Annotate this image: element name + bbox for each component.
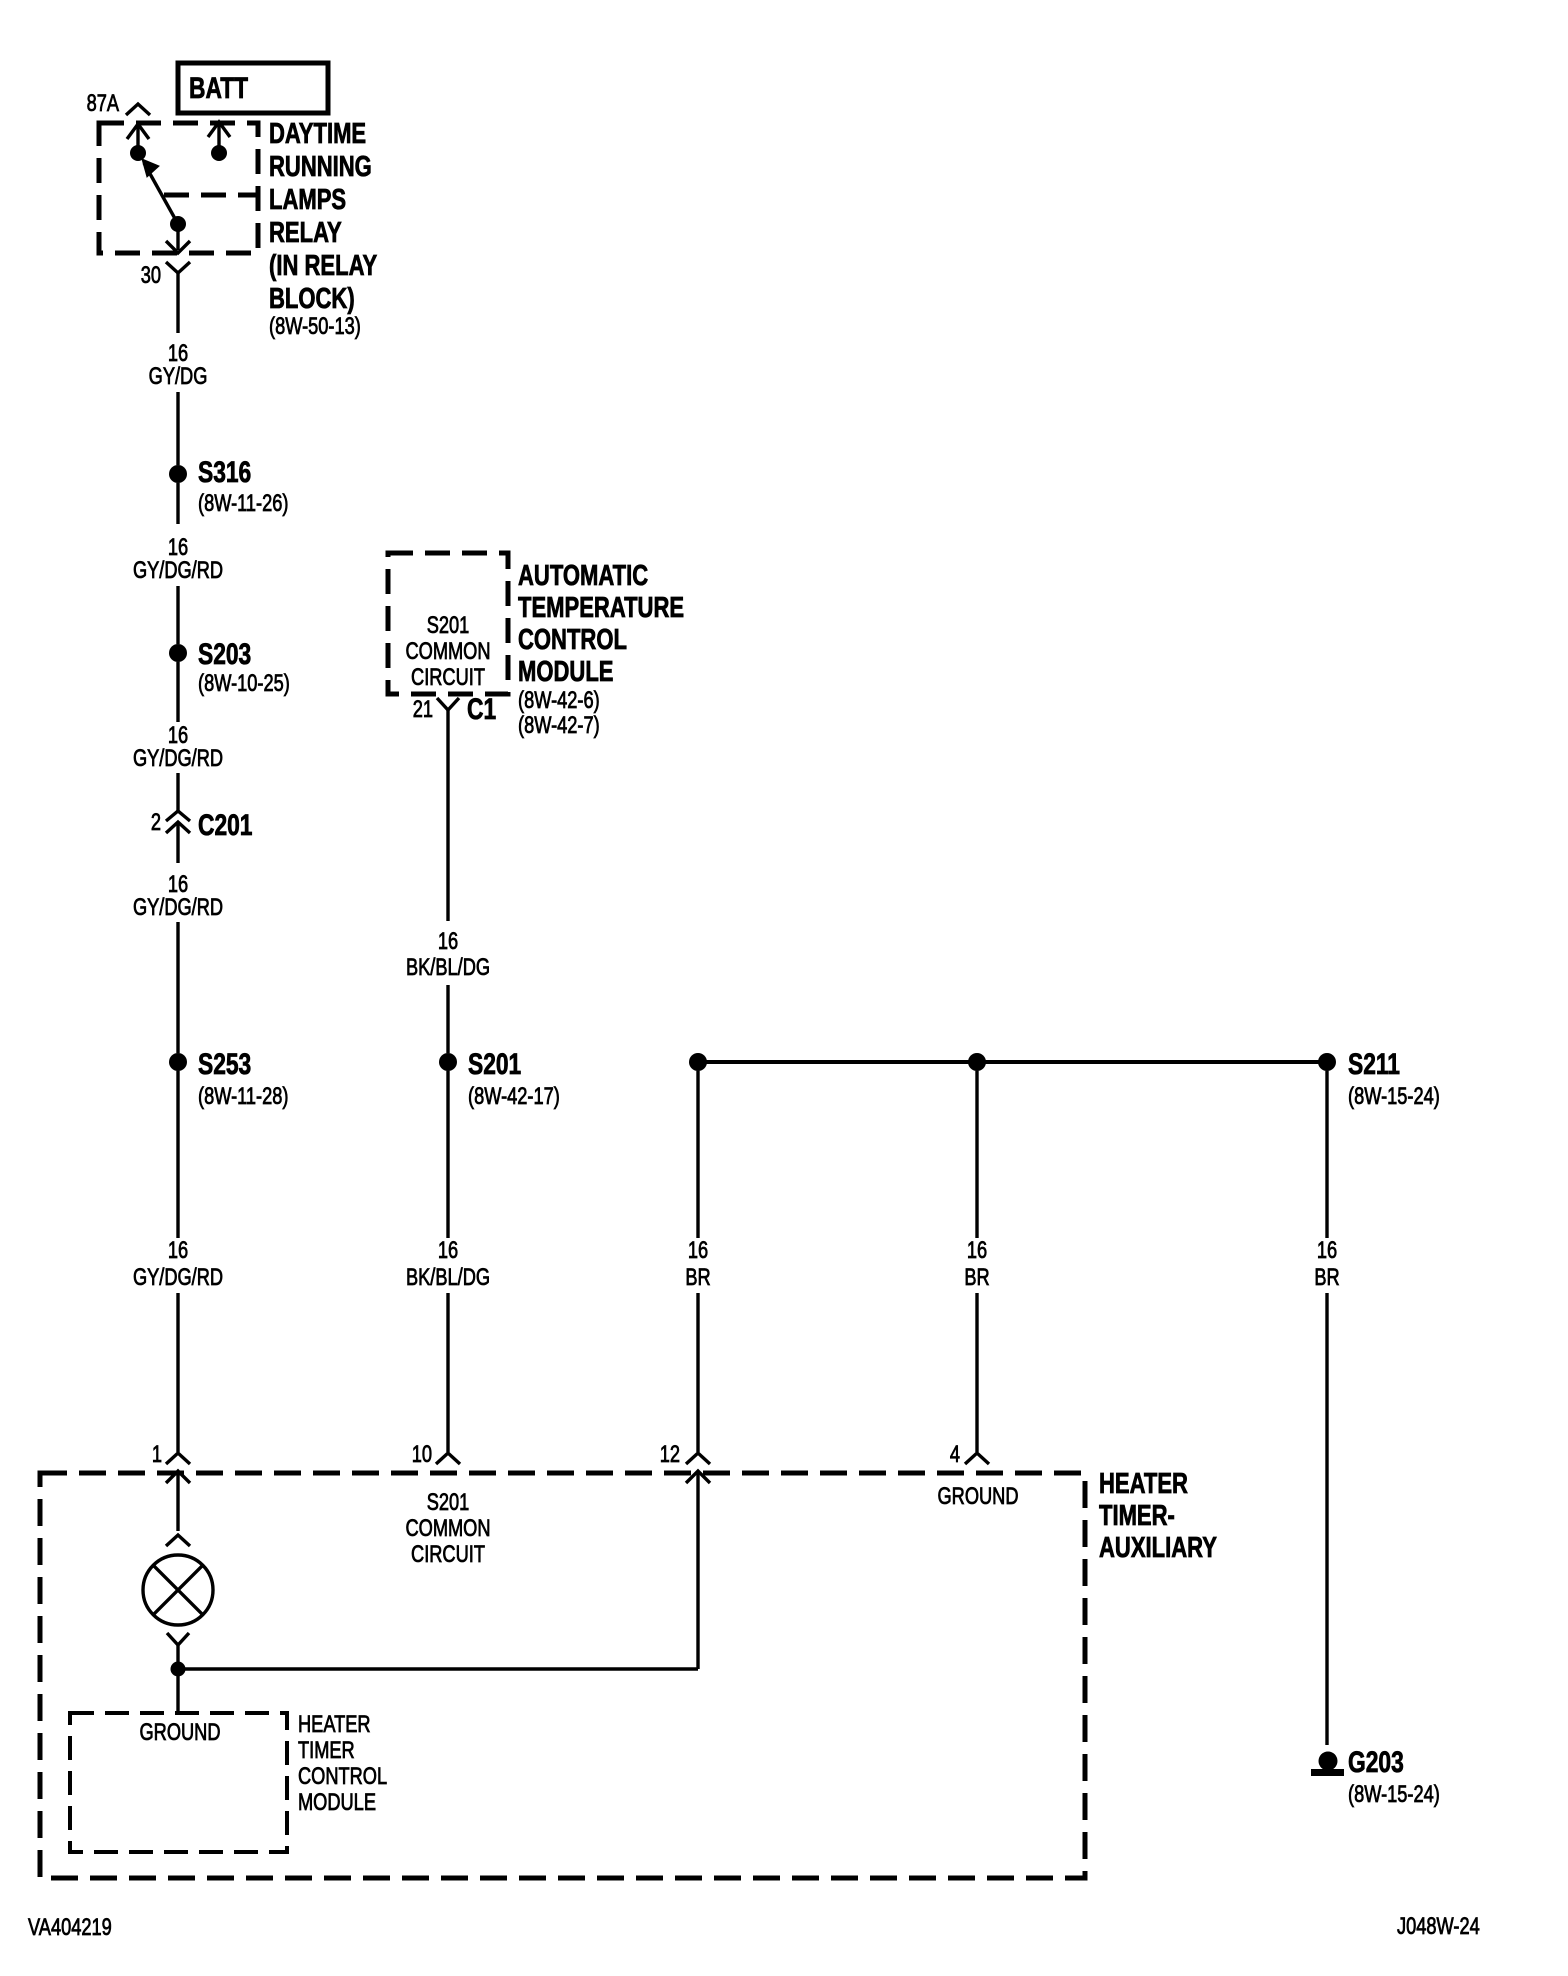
svg-text:TEMPERATURE: TEMPERATURE	[518, 592, 684, 624]
svg-text:(8W-42-7): (8W-42-7)	[518, 712, 600, 739]
svg-text:VA404219: VA404219	[28, 1914, 112, 1941]
svg-text:S201: S201	[427, 1489, 470, 1516]
svg-text:GY/DG/RD: GY/DG/RD	[133, 1264, 223, 1291]
wire: S201 down	[446, 1071, 449, 1238]
svg-text:(8W-10-25): (8W-10-25)	[198, 670, 290, 697]
connector chevron above indicator lamp	[166, 1535, 190, 1546]
svg-text:CIRCUIT: CIRCUIT	[411, 664, 485, 691]
svg-text:GY/DG/RD: GY/DG/RD	[133, 745, 223, 772]
wire: S316 down	[176, 483, 179, 524]
node S201 COMMON CIRCUIT label inside heater timer	[405, 1489, 490, 1568]
svg-text:(8W-11-26): (8W-11-26)	[198, 490, 288, 517]
connector pin 1: chevron and male arrow through box edge	[152, 1441, 190, 1531]
svg-text:C201: C201	[198, 808, 253, 842]
splice S203	[169, 637, 290, 697]
label HEATER TIMER CONTROL MODULE	[298, 1711, 387, 1816]
svg-text:AUXILIARY: AUXILIARY	[1099, 1532, 1217, 1564]
connector Y below lamp	[167, 1633, 189, 1663]
wire: down to ground G203	[1325, 1293, 1328, 1745]
in-line connector C201 pin 2	[151, 808, 253, 863]
svg-text:(8W-11-28): (8W-11-28)	[198, 1083, 288, 1110]
svg-text:S211: S211	[1348, 1047, 1400, 1081]
svg-text:30: 30	[141, 262, 161, 289]
svg-text:16: 16	[438, 928, 458, 955]
svg-text:(IN RELAY: (IN RELAY	[269, 250, 377, 282]
svg-text:TIMER: TIMER	[298, 1737, 355, 1764]
svg-text:LAMPS: LAMPS	[269, 184, 346, 216]
BATT feed box	[178, 63, 328, 113]
wire label 16 BR	[964, 1237, 989, 1291]
svg-text:GY/DG: GY/DG	[149, 363, 208, 390]
svg-text:DAYTIME: DAYTIME	[269, 118, 366, 150]
wire: down to splice S201	[446, 985, 449, 1053]
HEATER TIMER-AUXILIARY module dashed box	[40, 1473, 1085, 1878]
ATC module S201 COMMON CIRCUIT dashed box	[388, 553, 508, 694]
wire label 16 BK/BL/DG	[406, 928, 490, 981]
heater timer control module inner dashed box	[70, 1713, 287, 1852]
svg-text:GY/DG/RD: GY/DG/RD	[133, 894, 223, 921]
ground bus wire (horizontal)	[698, 1060, 1327, 1064]
wire: S203 down	[176, 662, 179, 722]
wire label 16 GY/DG/RD	[133, 871, 223, 921]
svg-text:(8W-15-24): (8W-15-24)	[1348, 1781, 1440, 1808]
relay K1 DAYTIME RUNNING LAMPS RELAY dashed box	[99, 123, 258, 253]
splice S211 on ground bus	[1318, 1047, 1440, 1110]
wire: C201 down to splice S253	[176, 922, 179, 1053]
wire: S211 down	[1325, 1071, 1328, 1238]
ATC module name AUTOMATIC TEMPERATURE CONTROL MODULE	[518, 560, 684, 738]
svg-text:TIMER-: TIMER-	[1099, 1500, 1175, 1532]
wire label 16 BR	[685, 1237, 710, 1291]
svg-text:10: 10	[412, 1441, 432, 1468]
svg-text:MODULE: MODULE	[298, 1789, 376, 1816]
svg-text:(8W-15-24): (8W-15-24)	[1348, 1083, 1440, 1110]
junction node (lamp to ground / pin 12 branch)	[171, 1662, 186, 1677]
svg-text:COMMON: COMMON	[405, 638, 490, 665]
svg-text:AUTOMATIC: AUTOMATIC	[518, 560, 648, 592]
wire: down to connector C201	[176, 773, 179, 811]
svg-text:C1: C1	[467, 692, 496, 726]
splice S201	[439, 1047, 560, 1110]
svg-text:16: 16	[1317, 1237, 1337, 1264]
svg-text:RUNNING: RUNNING	[269, 151, 372, 183]
svg-text:BATT: BATT	[189, 71, 248, 105]
connector chevron pin 4	[950, 1441, 989, 1468]
wire label 16 GY/DG	[149, 340, 208, 390]
splice S253	[169, 1047, 288, 1110]
svg-text:16: 16	[688, 1237, 708, 1264]
wire: up to pin 12 (vertical)	[696, 1471, 699, 1669]
connector chevron pin 10	[412, 1441, 460, 1468]
svg-text:CONTROL: CONTROL	[518, 624, 627, 656]
wire: bus down (middle branch)	[975, 1071, 978, 1238]
relay inner divider (coil/contact compartment)	[164, 193, 258, 198]
svg-text:1: 1	[152, 1441, 162, 1468]
wire: bus down (left branch)	[696, 1071, 699, 1238]
svg-text:S253: S253	[198, 1047, 251, 1081]
wire: pin 30 down to splice S316	[176, 392, 179, 465]
svg-text:BR: BR	[1314, 1264, 1339, 1291]
junction dot middle on ground bus	[968, 1053, 986, 1071]
svg-text:21: 21	[413, 696, 433, 723]
svg-text:BLOCK): BLOCK)	[269, 283, 355, 315]
svg-text:S201: S201	[427, 612, 470, 639]
svg-text:12: 12	[660, 1441, 680, 1468]
svg-text:RELAY: RELAY	[269, 217, 342, 249]
connector chevron at relay pin 87A	[126, 104, 150, 115]
svg-text:87A: 87A	[87, 90, 120, 117]
svg-text:BK/BL/DG: BK/BL/DG	[406, 954, 490, 981]
wire label 16 BR	[1314, 1237, 1339, 1291]
module name HEATER TIMER-AUXILIARY	[1099, 1468, 1217, 1564]
relay switch blade (movable contact with arrowhead)	[142, 159, 186, 232]
svg-text:S203: S203	[198, 637, 251, 671]
svg-text:J048W-24: J048W-24	[1397, 1913, 1480, 1940]
relay name label DAYTIME RUNNING LAMPS RELAY (IN RELAY BLOCK) (8W-50-13)	[269, 118, 377, 339]
wire label 16 GY/DG/RD	[133, 534, 223, 584]
ground G203	[1311, 1745, 1440, 1808]
svg-text:HEATER: HEATER	[298, 1711, 371, 1738]
svg-text:COMMON: COMMON	[405, 1515, 490, 1542]
wire: down to heater timer pin 10	[446, 1293, 449, 1452]
svg-text:(8W-42-17): (8W-42-17)	[468, 1083, 560, 1110]
svg-text:16: 16	[438, 1237, 458, 1264]
wire: down to heater timer pin 4	[975, 1293, 978, 1452]
wire label 16 GY/DG/RD	[133, 1237, 223, 1291]
relay terminal 87 (right): male arrow and contact dot	[208, 122, 230, 161]
wire label 16 GY/DG/RD	[133, 722, 223, 772]
wire: down to heater timer pin 1	[176, 1293, 179, 1452]
wire: junction down to module ground	[176, 1669, 179, 1712]
svg-text:16: 16	[168, 1237, 188, 1264]
connector Y at relay pin 30	[166, 262, 190, 333]
svg-text:GROUND: GROUND	[140, 1719, 221, 1746]
splice S316	[169, 455, 288, 517]
indicator lamp (circle with X)	[143, 1555, 213, 1625]
relay common terminal 30: arrow down through box edge	[166, 231, 190, 253]
svg-text:GY/DG/RD: GY/DG/RD	[133, 557, 223, 584]
svg-text:CONTROL: CONTROL	[298, 1763, 387, 1790]
wire label 16 BK/BL/DG	[406, 1237, 490, 1291]
svg-text:G203: G203	[1348, 1745, 1404, 1779]
wire: down to splice S203	[176, 586, 179, 644]
wire: junction right to pin 12 (horizontal)	[178, 1667, 698, 1670]
svg-text:4: 4	[950, 1441, 960, 1468]
svg-text:HEATER: HEATER	[1099, 1468, 1188, 1500]
svg-text:CIRCUIT: CIRCUIT	[411, 1541, 485, 1568]
svg-text:2: 2	[151, 809, 161, 836]
svg-text:BK/BL/DG: BK/BL/DG	[406, 1264, 490, 1291]
junction dot left on ground bus	[689, 1053, 707, 1071]
svg-text:GROUND: GROUND	[938, 1483, 1019, 1510]
wire: C1 pin 21 down	[446, 721, 449, 921]
relay terminal 87A: male arrow and contact dot	[127, 124, 149, 161]
svg-text:(8W-50-13): (8W-50-13)	[269, 313, 361, 340]
wire: S253 down	[176, 1071, 179, 1238]
svg-text:S316: S316	[198, 455, 251, 489]
svg-text:16: 16	[967, 1237, 987, 1264]
connector pin 12: chevron and male arrow through box edge	[660, 1441, 710, 1483]
svg-text:S201: S201	[468, 1047, 521, 1081]
connector C1 pin 21 (Y at ATC module)	[413, 692, 497, 726]
svg-text:MODULE: MODULE	[518, 656, 613, 688]
wire: down to heater timer pin 12	[696, 1293, 699, 1452]
svg-text:(8W-42-6): (8W-42-6)	[518, 687, 600, 714]
svg-text:BR: BR	[685, 1264, 710, 1291]
svg-text:BR: BR	[964, 1264, 989, 1291]
